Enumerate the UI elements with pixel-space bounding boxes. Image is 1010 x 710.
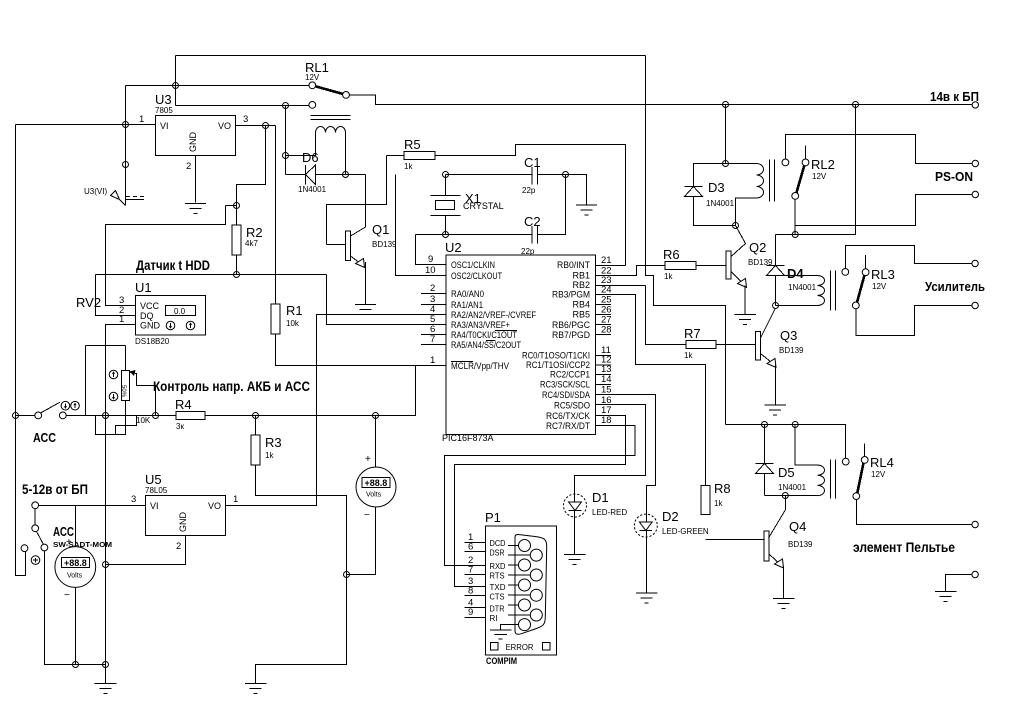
svg-text:D1: D1 (592, 490, 609, 505)
svg-text:1N4001: 1N4001 (788, 283, 817, 292)
svg-text:RC4/SDI/SDA: RC4/SDI/SDA (542, 390, 590, 400)
DB9 outline (515, 534, 547, 634)
wire R3 bottom (256, 465, 347, 683)
svg-text:12V: 12V (872, 282, 887, 291)
LED D1 (564, 494, 587, 517)
svg-text:OSC2/CLKOUT: OSC2/CLKOUT (451, 271, 502, 281)
svg-text:VCC: VCC (140, 301, 160, 311)
wire D3 feed (725, 105, 727, 164)
pin 7 stub (421, 344, 446, 346)
svg-text:ERROR: ERROR (506, 642, 534, 652)
svg-text:1N4001: 1N4001 (706, 199, 735, 208)
wire Q1 base riser (327, 156, 387, 245)
svg-text:50%: 50% (120, 385, 126, 398)
wire corner to U3 VI (125, 86, 127, 125)
svg-text:U3: U3 (155, 92, 172, 107)
svg-text:Контроль напр. АКБ и АСС: Контроль напр. АКБ и АСС (153, 378, 310, 394)
svg-text:12V: 12V (812, 172, 827, 181)
voltmeter ACC (75, 505, 77, 546)
svg-text:RL4: RL4 (870, 455, 894, 470)
ground D1 (564, 554, 586, 556)
terminal PS-ON top (972, 160, 978, 166)
svg-text:RV2: RV2 (76, 295, 101, 310)
svg-text:DTR: DTR (490, 604, 505, 614)
svg-text:2: 2 (186, 161, 191, 172)
wire 14v rail right part (349, 95, 972, 105)
svg-text:RB0/INT: RB0/INT (557, 260, 590, 270)
svg-text:0.0: 0.0 (174, 307, 186, 316)
svg-text:DCD: DCD (490, 538, 506, 548)
diode D5 (764, 425, 766, 464)
IC U2 PIC16F873A (446, 255, 596, 435)
svg-text:15: 15 (601, 385, 612, 396)
diode D3 (694, 164, 726, 187)
svg-text:RB4: RB4 (572, 300, 590, 310)
potentiometer RV2 (86, 345, 126, 347)
svg-text:RB3/PGM: RB3/PGM (552, 290, 590, 300)
svg-text:CTS: CTS (490, 592, 505, 602)
svg-text:RA5/AN4/SS/C2OUT: RA5/AN4/SS/C2OUT (451, 340, 521, 350)
svg-text:DS18B20: DS18B20 (135, 337, 170, 346)
svg-text:14в к БП: 14в к БП (930, 89, 979, 104)
resistor R3 (255, 416, 257, 436)
svg-text:18: 18 (601, 415, 612, 426)
svg-text:U3(VI): U3(VI) (84, 187, 107, 196)
svg-text:R8: R8 (714, 481, 731, 496)
ground D2 (636, 592, 658, 594)
svg-text:R5: R5 (404, 137, 421, 152)
wire DQ rail (96, 274, 327, 276)
svg-text:7: 7 (468, 565, 473, 576)
svg-text:14: 14 (601, 374, 612, 385)
svg-text:Q2: Q2 (749, 240, 766, 255)
icon circled up (186, 321, 195, 330)
terminal amp bottom (972, 302, 978, 308)
svg-text:RC2/CCP1: RC2/CCP1 (550, 370, 590, 380)
svg-text:+88.8: +88.8 (365, 478, 388, 488)
capacitor C1 (446, 174, 533, 176)
switch SW-SADT-MOM (32, 502, 39, 509)
svg-text:Volts: Volts (67, 573, 83, 580)
svg-text:RXD: RXD (490, 561, 506, 571)
svg-text:Q4: Q4 (789, 519, 806, 534)
svg-text:8: 8 (468, 586, 473, 597)
svg-text:3: 3 (131, 494, 136, 505)
ground Q1 (355, 304, 376, 306)
svg-text:DSR: DSR (490, 548, 505, 558)
DB9 holes right column (530, 549, 542, 561)
svg-text:−: − (364, 510, 370, 521)
svg-text:LED-RED: LED-RED (592, 508, 627, 517)
wire U3 VI input (16, 124, 156, 126)
node junction D6 feed (283, 103, 289, 109)
svg-text:R4: R4 (175, 397, 192, 412)
svg-text:28: 28 (601, 325, 612, 336)
svg-text:GND: GND (140, 321, 161, 331)
svg-text:12V: 12V (305, 73, 320, 82)
probe U3(VI) (125, 125, 127, 206)
ERROR squares (491, 643, 499, 651)
wire R2 bottom (236, 255, 238, 275)
svg-text:+: + (365, 454, 371, 465)
relay RL4 coil (795, 425, 817, 466)
svg-text:LED-GREEN: LED-GREEN (662, 527, 709, 536)
capacitor C2 (416, 234, 533, 236)
svg-text:D4: D4 (787, 266, 804, 281)
icon circled down (166, 321, 175, 330)
wire vertical link rails (175, 56, 177, 106)
svg-text:RC6/TX/CK: RC6/TX/CK (546, 411, 590, 421)
resistor R1 (271, 304, 280, 334)
svg-text:BD139: BD139 (788, 540, 813, 549)
wire 5V jog from VO to R2 (237, 126, 266, 206)
relay RL3 contacts (842, 269, 849, 276)
wire top feedback rail (176, 55, 646, 57)
svg-text:U2: U2 (445, 240, 462, 255)
svg-text:GND: GND (178, 512, 188, 533)
wire DQ to U1 pin2 (96, 275, 136, 316)
svg-text:Volts: Volts (366, 492, 382, 499)
svg-text:RA1/AN1: RA1/AN1 (451, 300, 483, 310)
DB9 hole stubs (508, 545, 519, 547)
svg-text:U5: U5 (145, 472, 162, 487)
node junction A (173, 83, 179, 89)
ground Q2 (735, 314, 757, 316)
wire RL4 coil power rail (726, 425, 846, 459)
svg-text:1: 1 (233, 494, 238, 505)
relay RL1 arm (316, 86, 346, 94)
wire D6 feed vertical (285, 106, 287, 175)
terminal PS-ON bottom (972, 191, 978, 197)
svg-text:RI: RI (490, 613, 498, 623)
connector P1 (486, 526, 557, 655)
svg-text:RTS: RTS (490, 571, 505, 581)
wire R1 bottom to MCLR (276, 334, 447, 366)
svg-text:BD139: BD139 (779, 346, 804, 355)
node junction RL4 coil (792, 422, 798, 428)
ground Q4 (773, 598, 795, 600)
svg-text:9: 9 (428, 254, 433, 265)
svg-text:1: 1 (139, 114, 144, 125)
wire R2 top link (226, 206, 237, 226)
svg-text:−: − (64, 590, 70, 601)
svg-text:VO: VO (218, 121, 231, 131)
svg-text:5-12в от БП: 5-12в от БП (22, 481, 88, 497)
svg-text:1k: 1k (664, 272, 673, 281)
relay RL1 contact circle NO (309, 102, 316, 109)
svg-text:1k: 1k (265, 451, 274, 460)
svg-text:9: 9 (468, 607, 473, 618)
svg-text:PIC16F873A: PIC16F873A (442, 433, 494, 443)
svg-text:D2: D2 (662, 509, 679, 524)
pin 6 stub (421, 334, 446, 336)
svg-text:6: 6 (468, 542, 473, 553)
svg-text:RB1: RB1 (572, 271, 590, 281)
svg-text:D3: D3 (708, 180, 725, 195)
svg-text:Усилитель: Усилитель (925, 279, 985, 294)
svg-text:GND: GND (188, 132, 198, 153)
transistor Q1 (351, 175, 366, 237)
svg-text:АСС: АСС (33, 430, 57, 445)
relay RL4 contacts (842, 458, 849, 465)
svg-text:+88.8: +88.8 (64, 558, 87, 568)
svg-text:1k: 1k (404, 162, 413, 171)
LED D2 (634, 514, 657, 537)
wire RL2-RL3 coil rail (776, 105, 856, 235)
svg-text:10K: 10K (136, 416, 151, 425)
ground R3 path (245, 683, 267, 685)
IC U3 7805 (156, 116, 236, 156)
svg-text:1k: 1k (684, 351, 693, 360)
DB9 holes left column (519, 540, 531, 552)
svg-text:RB2: RB2 (572, 280, 590, 290)
svg-text:RA0/AN0: RA0/AN0 (451, 289, 484, 299)
svg-text:BD139: BD139 (372, 240, 397, 249)
display U1 (166, 306, 196, 316)
svg-text:R1: R1 (286, 303, 303, 318)
wire VCC run to U1 (106, 206, 226, 306)
svg-text:1N4001: 1N4001 (778, 483, 807, 492)
wire R5 to RB0 (435, 145, 626, 266)
svg-text:TXD: TXD (490, 582, 506, 592)
svg-text:C1: C1 (524, 155, 541, 170)
resistor R7 (646, 286, 687, 345)
svg-text:RB5: RB5 (572, 310, 590, 320)
wire R4 to MCLR riser (205, 366, 416, 416)
wire pot bottom wrap (96, 401, 126, 435)
svg-text:P1: P1 (485, 510, 501, 525)
svg-text:12V: 12V (871, 470, 886, 479)
relay RL2 contacts (782, 159, 789, 166)
ground C1C2 (576, 204, 597, 206)
resistor R2 (232, 225, 241, 255)
diode D4 (775, 235, 777, 266)
svg-text:4k7: 4k7 (245, 239, 258, 248)
diode D6 (286, 174, 306, 176)
ground U3 (185, 203, 206, 205)
resistor R6 (665, 262, 696, 270)
transistor Q3 (716, 344, 756, 346)
pin 2 stub (421, 293, 446, 295)
svg-text:2: 2 (176, 541, 181, 552)
svg-text:R7: R7 (684, 326, 701, 341)
wire U3 VO output (236, 125, 276, 127)
wire pot top feed from ACC (85, 346, 87, 416)
crystal X1 (445, 175, 447, 196)
relay RL2 coil (726, 163, 757, 165)
svg-text:RB7/PGD: RB7/PGD (552, 330, 590, 340)
wire left main vertical from ACC (16, 125, 26, 576)
wire VO down to R1 (275, 126, 277, 305)
wire U5 VI feed (39, 504, 146, 506)
resistor R5 (387, 155, 405, 157)
svg-text:1k: 1k (714, 499, 723, 508)
svg-text:21: 21 (601, 255, 612, 266)
svg-text:Q1: Q1 (372, 222, 389, 237)
svg-text:U1: U1 (135, 280, 152, 295)
svg-text:VI: VI (150, 501, 159, 511)
wire U1 GND long vertical (106, 325, 136, 665)
transistor Q2 (731, 226, 746, 258)
svg-text:Датчик t HDD: Датчик t HDD (136, 257, 210, 273)
svg-text:D6: D6 (302, 150, 319, 165)
pin 3 stub (421, 304, 446, 306)
svg-text:78L05: 78L05 (145, 486, 168, 495)
svg-text:PS-ON: PS-ON (935, 169, 973, 184)
P1 internal ground (501, 625, 519, 630)
relay RL3 coil (785, 275, 818, 277)
wire U5 GND (106, 536, 186, 565)
relay RL1 fixed contact circle (309, 82, 316, 89)
svg-text:VO: VO (208, 501, 221, 511)
svg-text:RC3/SCK/SCL: RC3/SCK/SCL (540, 380, 590, 390)
svg-text:COMPIM: COMPIM (486, 656, 517, 666)
node junction VO (263, 123, 269, 129)
wire U5 VO to RA2 (226, 315, 447, 506)
svg-text:7: 7 (430, 334, 435, 345)
svg-text:D5: D5 (778, 465, 795, 480)
svg-text:RL3: RL3 (871, 267, 895, 282)
svg-text:MCLR/Vpp/THV: MCLR/Vpp/THV (451, 361, 509, 371)
svg-text:R3: R3 (265, 435, 282, 450)
svg-text:RC5/SDO: RC5/SDO (554, 401, 590, 411)
wire ACC row (16, 415, 35, 417)
svg-text:RC7/RX/DT: RC7/RX/DT (546, 421, 590, 431)
svg-text:3к: 3к (176, 422, 184, 431)
wire RB2 riser to top rail (646, 56, 726, 425)
wire OSC2 pin10 (396, 175, 447, 276)
svg-text:10: 10 (425, 265, 436, 276)
node junction D3 feed (723, 102, 729, 108)
svg-text:1: 1 (430, 355, 435, 366)
svg-text:RA4/T0CKI/C1OUT: RA4/T0CKI/C1OUT (451, 330, 517, 340)
wire U3 GND pin (195, 156, 197, 203)
svg-text:RA3/AN3/VREF+: RA3/AN3/VREF+ (451, 320, 510, 330)
resistor R4 (156, 415, 177, 417)
svg-text:элемент Пельтье: элемент Пельтье (853, 539, 955, 555)
terminal 14v (972, 102, 978, 108)
terminal peltier bottom (972, 571, 978, 577)
svg-text:DQ: DQ (140, 311, 154, 321)
ground Q3 (765, 404, 787, 406)
svg-text:RA2/AN2/VREF-/CVREF: RA2/AN2/VREF-/CVREF (451, 310, 536, 320)
IC U5 78L05 (146, 496, 226, 536)
wire 14v rail left part (176, 105, 310, 107)
relay RL1 coil (316, 127, 346, 133)
IC U1 DS18B20 (136, 296, 206, 336)
transistor Q4 (769, 496, 786, 539)
svg-text:RL2: RL2 (811, 157, 835, 172)
svg-text:RC0/T1OSO/T1CKI: RC0/T1OSO/T1CKI (522, 351, 590, 361)
ground main left (105, 665, 107, 684)
svg-text:R2: R2 (246, 225, 263, 240)
svg-text:OSC1/CLKIN: OSC1/CLKIN (451, 260, 495, 270)
node junction U3 VI (123, 122, 129, 128)
svg-text:C2: C2 (524, 214, 541, 229)
terminal peltier top (972, 521, 978, 527)
svg-text:2: 2 (430, 283, 435, 294)
svg-text:VI: VI (160, 121, 169, 131)
wire RL1 fixed contact feed (126, 85, 309, 87)
wire 10K step (116, 416, 137, 435)
svg-text:7805: 7805 (155, 106, 173, 115)
svg-text:3: 3 (243, 114, 248, 125)
node junction D5 (762, 422, 768, 428)
resistor R8 (701, 486, 710, 515)
wire OSC1 pin9 (416, 235, 447, 265)
svg-text:Q3: Q3 (780, 328, 797, 343)
wire coil left leg (286, 133, 316, 156)
wire DQ rail to RA3 (327, 275, 447, 325)
svg-text:1N4001: 1N4001 (298, 185, 327, 194)
svg-text:22p: 22p (522, 186, 536, 195)
svg-text:10k: 10k (286, 319, 300, 328)
svg-text:RC1/T1OSI/CCP2: RC1/T1OSI/CCP2 (526, 360, 590, 370)
svg-text:RB6/PGC: RB6/PGC (552, 320, 590, 330)
terminal amp top (972, 260, 978, 266)
wire bottom rail (45, 551, 106, 665)
svg-text:1: 1 (119, 314, 124, 325)
voltmeter V2 (375, 416, 377, 468)
ground peltier (935, 591, 957, 593)
svg-text:CRYSTAL: CRYSTAL (463, 201, 504, 211)
node junction RL2 branch (853, 102, 859, 108)
switch ACC (13, 413, 19, 419)
svg-text:R6: R6 (663, 247, 680, 262)
